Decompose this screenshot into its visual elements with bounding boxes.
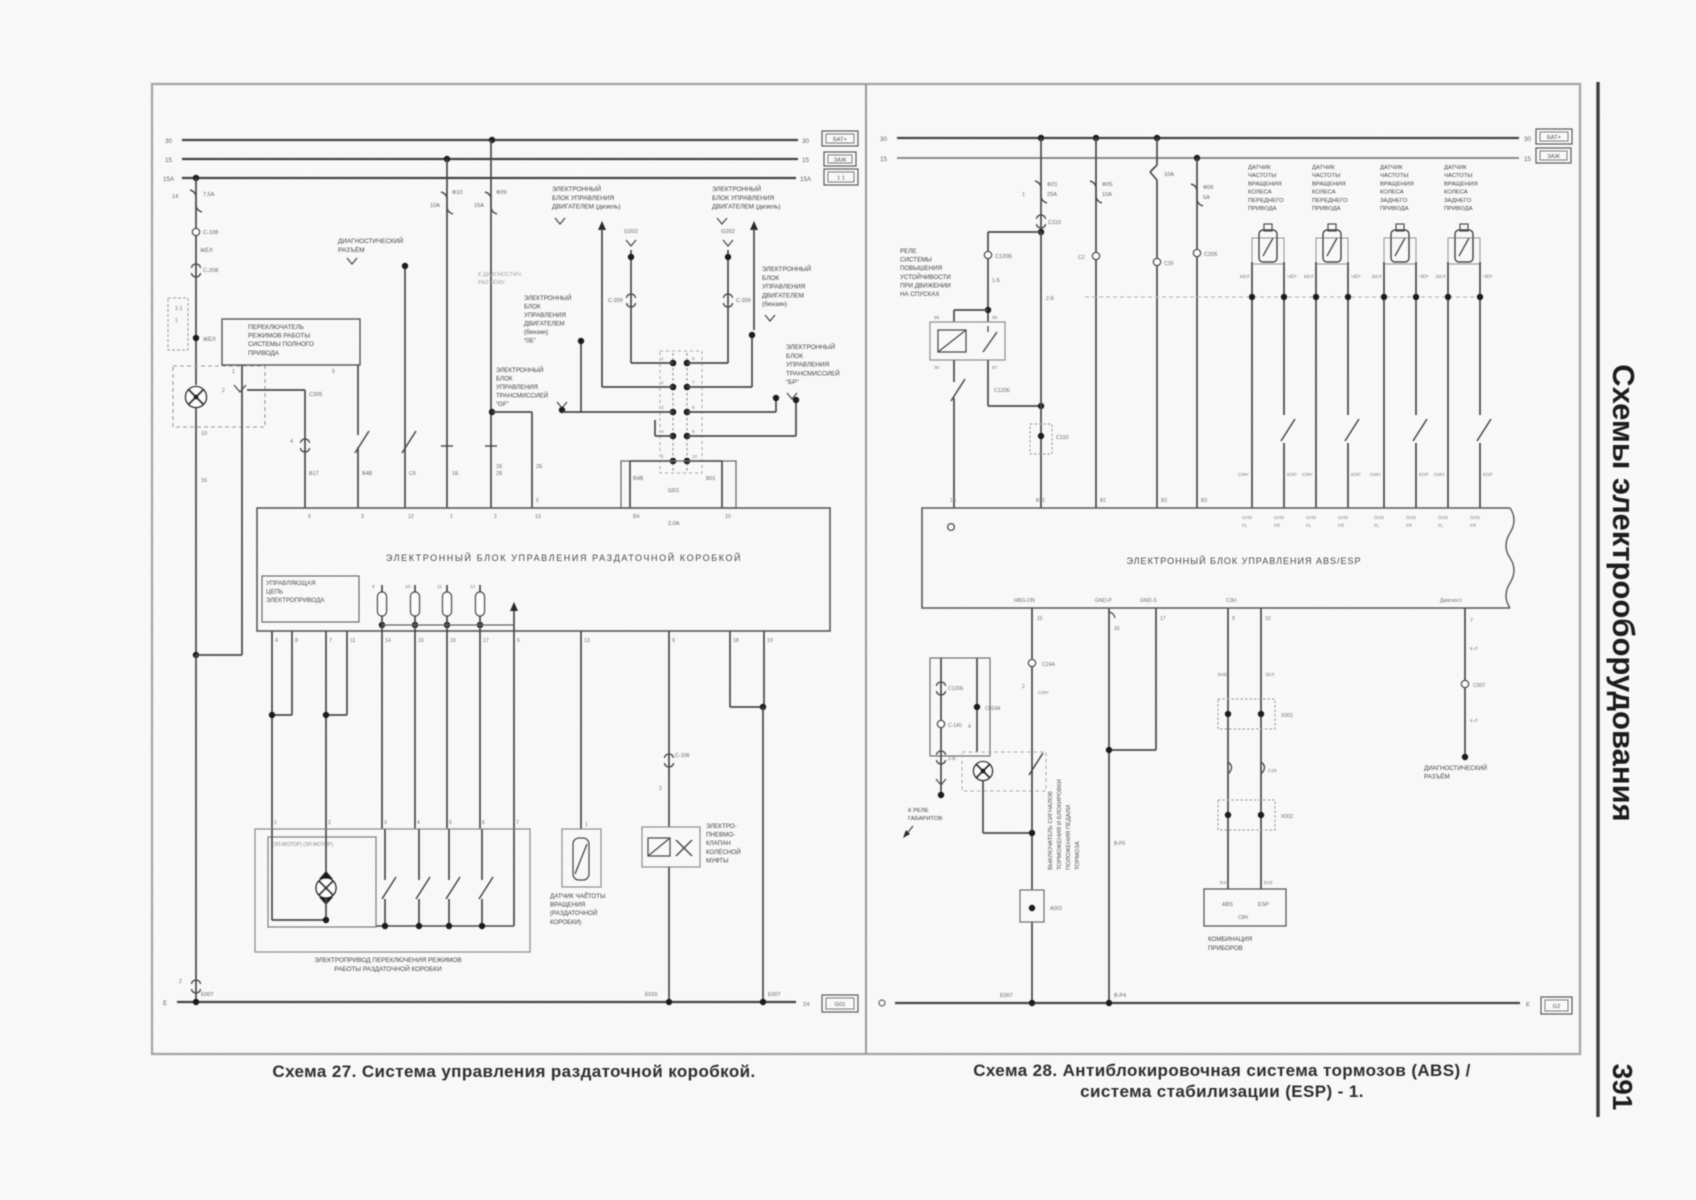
connector X100 dashed housing [660,351,702,473]
svg-text:15: 15 [802,157,809,164]
svg-text:ЕSР: ЕSР [1258,902,1269,908]
svg-text:1Б: 1Б [950,498,957,504]
wire pin19 to ground bus [762,707,764,1002]
svg-text:10: 10 [1265,616,1271,622]
svg-text:В4: В4 [633,514,639,520]
junction lamp/column [1029,830,1035,836]
svg-text:ПРИ ДВИЖЕНИИ: ПРИ ДВИЖЕНИИ [900,282,951,289]
svg-text:3: 3 [661,405,664,410]
svg-text:15А: 15А [163,176,175,183]
svg-text:1Б: 1Б [496,464,503,470]
svg-text:ПРИБОРОВ: ПРИБОРОВ [1208,945,1243,952]
wire output5 down [513,631,515,829]
svg-text:ВЫКЛЮЧАТЕЛЬ СИГНАЛОВ: ВЫКЛЮЧАТЕЛЬ СИГНАЛОВ [1048,791,1054,870]
connector C-108 on lamp branch [192,228,199,235]
svg-text:GHS: GHS [1338,515,1348,520]
svg-text:ЧЁР: ЧЁР [1419,273,1429,280]
svg-text:С-106: С-106 [675,753,690,759]
svg-text:ДАТЧИК: ДАТЧИК [1444,165,1467,171]
svg-text:ПЕРЕКЛЮЧАТЕЛЬ: ПЕРЕКЛЮЧАТЕЛЬ [248,324,304,331]
svg-text:FL: FL [1374,523,1380,528]
svg-text:ЭЛЕКТРОННЫЙ: ЭЛЕКТРОННЫЙ [496,366,543,374]
svg-text:СИН: СИН [1370,472,1381,478]
svg-text:С24А: С24А [1042,662,1056,668]
svg-text:Схема 27. Система управления р: Схема 27. Система управления раздаточной… [272,1062,755,1081]
svg-text:13: 13 [584,638,590,644]
svg-text:6: 6 [308,514,311,520]
svg-text:СИН: СИН [1434,472,1445,478]
dashed enclosure around lamp [173,366,265,427]
connector tick wire447 [441,445,453,447]
connector C-209 left [627,294,636,298]
svg-text:КОЛЕСА: КОЛЕСА [1312,190,1336,196]
svg-text:Ф21: Ф21 [1047,182,1057,188]
svg-text:FR: FR [1338,523,1345,528]
transfer actuator outer box [255,829,530,952]
svg-text:ТОРМОЖЕНИЯ И БЛОКИРОВКИ: ТОРМОЖЕНИЯ И БЛОКИРОВКИ [1057,779,1063,870]
svg-text:ДВИГАТЕЛЕМ (дизель): ДВИГАТЕЛЕМ (дизель) [552,204,621,211]
ground bus right diagram [895,1002,1520,1004]
diag connector dot [402,263,408,269]
svg-text:GHS: GHS [1274,515,1284,520]
wire GND-P down [1108,608,1110,1003]
wire ECU pin9 down [668,631,670,827]
sensor B1 switch [1281,419,1295,441]
wire 1032 to ground [1031,922,1033,1003]
svg-text:ЦЕПЬ: ЦЕПЬ [266,588,283,595]
svg-text:КОЛЕСА: КОЛЕСА [1444,190,1468,196]
svg-text:14: 14 [172,194,178,200]
connector pair on 941 a [937,682,946,686]
svg-text:FL: FL [1306,523,1312,528]
wire HBG-ON down [1031,608,1033,890]
diag end dot [1462,754,1468,760]
svg-text:G202: G202 [721,229,735,235]
connector on wire 305 [301,439,310,443]
wire BR2 riser [775,395,777,412]
right ground junction GND-P [1106,1000,1112,1006]
ground bus end box [822,995,858,1012]
wire to diesel ECU-2 with arrow [750,221,758,230]
junction rail3/lamp-branch [193,175,199,181]
svg-text:К-Л: К-Л [1470,646,1478,652]
wire ECU pin4 down [271,631,273,829]
svg-text:БЕЛ: БЕЛ [1240,274,1250,280]
svg-text:С305: С305 [309,392,322,398]
svg-text:2: 2 [222,388,225,394]
small dashed connector frame [168,298,188,350]
svg-text:30: 30 [802,138,809,145]
svg-text:БЕЛ: БЕЛ [1304,274,1314,280]
svg-text:7: 7 [329,638,332,644]
svg-text:В-Р4: В-Р4 [1114,993,1126,999]
svg-text:25А: 25А [1047,192,1057,198]
svg-text:ПЕРЕДНЕГО: ПЕРЕДНЕГО [1312,198,1348,204]
svg-text:КОР: КОР [1351,472,1361,478]
sensor B3 switch [1413,419,1427,441]
net 15A bus (left diagram top rail 3) [182,177,796,179]
actuator position switch 1 [384,829,386,880]
svg-text:В17: В17 [309,471,319,477]
solenoid cross [676,840,692,856]
svg-text:GHS: GHS [1242,515,1252,520]
connector C205 on 1197 [1193,249,1200,256]
svg-text:КОМБИНАЦИЯ: КОМБИНАЦИЯ [1208,936,1252,943]
wire GND-S jog [1155,608,1157,750]
svg-text:G202: G202 [624,229,638,235]
junction lamp/switch-return [193,652,199,658]
fuse F10 10A [441,192,447,202]
svg-text:85: 85 [992,315,998,321]
svg-text:РАБОТЫ РАЗДАТОЧНОЙ КОРОБКИ: РАБОТЫ РАЗДАТОЧНОЙ КОРОБКИ [334,964,442,973]
svg-text:8: 8 [295,638,298,644]
GF connector arrow [557,402,567,408]
svg-text:КЛАПАН: КЛАПАН [706,840,731,847]
svg-text:6: 6 [692,356,695,361]
arrow end on 941 [936,779,946,785]
svg-text:FR: FR [1406,523,1413,528]
connector circle on 941 [937,720,944,727]
svg-text:5: 5 [332,369,335,375]
svg-text:2: 2 [1022,684,1025,690]
wire lamp branch upper [195,178,197,385]
stoplight lamp dashed box [962,752,1046,791]
wire cluster left [1227,608,1229,889]
X100 row4 wires [655,435,673,437]
sidebar rule [1596,82,1599,1117]
svg-text:БЛОК УПРАВЛЕНИЯ: БЛОК УПРАВЛЕНИЯ [552,195,614,202]
sensor B2 switch [1345,419,1359,441]
right ground left terminal [879,1000,885,1006]
solenoid valve box [642,827,700,867]
svg-text:ВРАЩЕНИЯ: ВРАЩЕНИЯ [1248,181,1282,187]
svg-text:БЕЛ: БЕЛ [1436,274,1446,280]
junction on lamp branch [193,335,199,341]
connector X100 pin pair row 1 [670,360,677,367]
svg-text:УСТОЙЧИВОСТИ: УСТОЙЧИВОСТИ [900,273,951,281]
svg-text:4: 4 [661,429,664,434]
svg-text:ЧЁР: ЧЁР [1351,273,1361,280]
actuator common rail [376,925,514,927]
svg-text:10: 10 [201,431,207,437]
svg-text:ДВИГАТЕЛЕМ (дизель): ДВИГАТЕЛЕМ (дизель) [712,204,781,211]
rail1 end box [1536,129,1572,144]
svg-text:ДИАГНОСТИЧЕСКИЙ: ДИАГНОСТИЧЕСКИЙ [1424,764,1487,772]
connector C120B [984,251,991,258]
svg-text:5: 5 [661,454,664,459]
wire 358 to ecu [357,365,359,435]
svg-text:В01: В01 [706,476,716,482]
svg-text:7,5А: 7,5А [203,192,215,198]
svg-text:КОЛЕСА: КОЛЕСА [1380,190,1404,196]
svg-text:ДВИГАТЕЛЕМ: ДВИГАТЕЛЕМ [762,292,804,299]
svg-text:11: 11 [350,638,355,644]
valve block box [930,658,990,756]
svg-text:РАЗЪЁМУ: РАЗЪЁМУ [478,279,505,286]
svg-text:КОЛЁСНОЙ: КОЛЁСНОЙ [706,848,741,856]
svg-text:ЖЁЛ: ЖЁЛ [203,336,216,343]
wire ECU pin11 jog [346,631,348,715]
svg-text:С-209: С-209 [608,298,623,304]
svg-text:ЗЕЛ: ЗЕЛ [1265,672,1274,678]
svg-text:ЭЛЕКТРОННЫЙ: ЭЛЕКТРОННЫЙ [552,184,601,193]
net box rail3 [824,169,858,185]
svg-text:“БР”: “БР” [786,379,799,386]
svg-text:Схема 28. Антиблокировочная си: Схема 28. Антиблокировочная система торм… [973,1061,1471,1080]
svg-text:7: 7 [1470,618,1473,624]
svg-text:МУФТЫ: МУФТЫ [706,857,729,864]
wire C110 to ECU [1040,232,1042,508]
svg-text:ЗАЖ: ЗАЖ [1547,154,1560,160]
svg-text:В4В: В4В [633,476,644,482]
svg-text:2: 2 [328,820,331,826]
wire switch to ecu vertical [304,390,306,508]
svg-text:С8Н: С8Н [1238,915,1248,921]
svg-text:1: 1 [175,318,178,324]
svg-text:11: 11 [437,584,442,590]
svg-text:ТОРМОЗА: ТОРМОЗА [1075,841,1081,870]
svg-text:24: 24 [803,1002,810,1008]
capsule junction 4 [477,622,483,628]
svg-text:2-Б: 2-Б [1046,296,1055,302]
svg-text:СИН: СИН [1302,472,1313,478]
svg-text:ВРАЩЕНИЯ: ВРАЩЕНИЯ [1312,181,1346,187]
svg-text:3: 3 [361,514,364,520]
sensor B4 right lead [1479,262,1481,415]
svg-text:РАЗЪЁМ: РАЗЪЁМ [1424,774,1450,781]
svg-text:16: 16 [1114,626,1120,632]
sensor B4 left lead [1447,262,1449,508]
svg-text:НВG-ОN: НВG-ОN [1014,598,1035,604]
rail1 junction F21 [1038,135,1044,141]
wire petrol-2 riser [580,341,582,412]
sensor B3 junctions [1381,294,1387,300]
svg-text:GHS: GHS [1406,515,1416,520]
net 30 bus (left diagram top rail 1) [182,139,798,141]
svg-text:ЭЛЕКТРОННЫЙ БЛОК УПРАВЛЕНИЯ АВ: ЭЛЕКТРОННЫЙ БЛОК УПРАВЛЕНИЯ АВS/ЕSР [1126,555,1361,566]
svg-text:(бензин): (бензин) [762,300,787,308]
svg-text:7: 7 [692,380,695,385]
svg-text:В16: В16 [1220,880,1229,886]
indicator lamp 4WD [186,387,207,408]
svg-text:С-208: С-208 [203,268,218,274]
svg-text:КОЛЕСА: КОЛЕСА [1248,190,1272,196]
svg-text:Ш01: Ш01 [668,488,679,494]
wire coil branch [954,309,988,311]
svg-text:ЧЁР: ЧЁР [1287,273,1297,280]
transfer speed sensor outer [562,829,601,887]
svg-text:система стабилизации (ЕSР) - 1: система стабилизации (ЕSР) - 1. [1080,1082,1364,1101]
connector C110 [1037,215,1046,219]
svg-text:GND-Р: GND-Р [1095,598,1112,604]
svg-text:12: 12 [408,514,414,520]
connector X100 dashed pins [672,353,674,471]
ECU internal node circle [948,524,955,531]
svg-text:17: 17 [1160,616,1166,622]
svg-text:15: 15 [1524,156,1531,163]
wire relay contact down [987,360,989,406]
connector C007 [1461,680,1468,687]
svg-text:ПОВЫШЕНИЯ: ПОВЫШЕНИЯ [900,265,942,272]
svg-text:СИН: СИН [1238,472,1249,478]
wire ECU pin19 down [763,631,765,707]
svg-text:Диагност.: Диагност. [1440,598,1463,604]
svg-text:13: 13 [535,514,541,520]
svg-text:16: 16 [201,478,207,484]
sensor B2 left lead [1315,262,1317,508]
connector tick wire491 [485,445,497,447]
svg-text:С-108: С-108 [203,230,218,236]
svg-text:4: 4 [968,724,971,730]
ABS ESP ECU box [922,508,1510,608]
wire diag down [1464,608,1466,757]
fuse F21 25A [1035,181,1041,191]
svg-text:10А: 10А [430,203,440,209]
rail junction 1 [382,923,388,929]
svg-text:ВРАЩЕНИЯ: ВРАЩЕНИЯ [1444,181,1478,187]
rail junction 4 [479,923,485,929]
svg-text:В2: В2 [1161,498,1167,504]
sensor B3 right lead [1415,262,1417,415]
svg-text:ПЕРЕДНЕГО: ПЕРЕДНЕГО [1248,198,1284,204]
svg-text:БЛОК УПРАВЛЕНИЯ: БЛОК УПРАВЛЕНИЯ [712,195,774,202]
svg-text:5: 5 [449,820,452,826]
wire output 4 down [479,631,481,829]
output rail inside ECU [382,624,514,626]
net 15 bus (left diagram top rail 2) [182,158,798,160]
svg-text:15: 15 [418,638,424,644]
svg-text:GHS: GHS [1306,515,1316,520]
sensor B4 junctions [1445,294,1451,300]
junction on F9 wire [489,409,495,415]
svg-text:GHS: GHS [1374,515,1384,520]
svg-text:1 1: 1 1 [837,175,845,181]
svg-text:БЕЛ: БЕЛ [1372,274,1382,280]
solenoid coil [648,838,670,856]
svg-text:ЭЛЕКТРОПРИВОД ПЕРЕКЛЮЧЕНИЯ РЕЖ: ЭЛЕКТРОПРИВОД ПЕРЕКЛЮЧЕНИЯ РЕЖИМОВ [314,957,461,964]
svg-text:9: 9 [672,638,675,644]
svg-text:БАТ+: БАТ+ [1547,135,1562,141]
sensor B1 left lead [1251,262,1253,508]
svg-text:С26: С26 [1164,261,1174,267]
svg-text:РАЗЪЁМ: РАЗЪЁМ [338,246,365,254]
svg-text:С007: С007 [1473,683,1486,689]
transfer speed sensor element [573,838,589,880]
svg-text:С120Б: С120Б [994,388,1010,394]
rail junction 2 [416,923,422,929]
svg-text:(РАЗДАТОЧНОЙ: (РАЗДАТОЧНОЙ [550,909,597,917]
junction rail1/F-491 [489,137,495,143]
svg-text:4: 4 [275,638,278,644]
wheel speed sensor B3 body [1384,238,1416,264]
svg-text:КОР: КОР [1287,472,1297,478]
switch on wire 358 [355,431,369,453]
connector C24A [1028,659,1035,666]
wire petrol ECU riser [751,335,753,387]
X100 row4 left stub [654,420,656,436]
svg-text:15А: 15А [474,203,484,209]
wheel speed sensor B4 body [1448,238,1480,264]
capsule top lead 4 [479,585,481,592]
svg-text:ЧАСТОТЫ: ЧАСТОТЫ [1444,173,1473,179]
wire output 1 down [381,631,383,829]
wire switch-return vertical [241,408,243,655]
connector C-208 on lamp branch [192,264,201,268]
wire fuse F9 branch [490,140,492,508]
actuator inner motor box [268,837,376,927]
wire 358 from box stub [357,364,359,366]
svg-text:ТРАНСМИССИЕЙ: ТРАНСМИССИЕЙ [786,368,840,377]
svg-text:FR: FR [1470,523,1477,528]
svg-text:ДАТЧИК ЧАСТОТЫ: ДАТЧИК ЧАСТОТЫ [550,893,605,900]
wire lamp to lower junction [195,408,197,655]
svg-text:С120Б: С120Б [948,686,964,692]
svg-text:ПНЕВМО-: ПНЕВМО- [706,832,735,839]
svg-text:К ДИАГНОСТИЧ.: К ДИАГНОСТИЧ. [478,272,523,278]
X100 row1 stubs [631,362,673,364]
sensor B3 left lead [1383,262,1385,508]
rail1 junction F05 [1093,135,1099,141]
svg-text:15: 15 [880,156,887,163]
connector bracket box Sh01 [621,461,736,508]
wire valve to ground bus [668,867,670,1002]
wire motor bottom [325,898,327,920]
svg-text:1: 1 [661,356,664,361]
relay K1 box [930,322,1005,360]
svg-text:15А: 15А [800,176,812,183]
svg-text:УПРАВЛЕНИЯ: УПРАВЛЕНИЯ [762,284,806,291]
svg-text:РЕЛЕ: РЕЛЕ [900,248,916,255]
switch on 1032 [1029,753,1043,775]
driver output capsule 3 [443,592,452,616]
svg-text:GHS: GHS [1438,515,1448,520]
svg-text:ПРИВОДА: ПРИВОДА [1248,206,1277,212]
svg-text:АВS: АВS [1222,902,1233,908]
svg-text:2: 2 [659,786,662,792]
X100 bracket drop right [721,461,723,508]
svg-text:6: 6 [482,820,485,826]
svg-text:10: 10 [692,454,698,459]
svg-text:“GF”: “GF” [496,401,509,408]
capsule junction 3 [444,622,450,628]
junction relay branch [1038,229,1044,235]
svg-text:РЕЖИМОВ РАБОТЫ: РЕЖИМОВ РАБОТЫ [248,333,310,340]
connector X100 pin pair row 2 [670,384,677,391]
svg-text:12: 12 [470,584,476,590]
branch wire to ECU pin 2B [492,411,532,413]
svg-text:ПРИВОДА: ПРИВОДА [1444,206,1473,212]
svg-text:ЧЁР: ЧЁР [1483,273,1493,280]
svg-text:ПРИВОДА: ПРИВОДА [1312,206,1341,212]
svg-text:В3: В3 [1201,498,1207,504]
wheel speed sensor B2 body [1316,238,1348,264]
svg-text:Е: Е [1526,1002,1530,1008]
motor M1 [316,878,336,898]
svg-text:10: 10 [405,584,411,590]
page frame [152,84,1580,1054]
svg-text:ВРАЩЕНИЯ: ВРАЩЕНИЯ [1380,181,1414,187]
svg-text:2: 2 [179,979,182,985]
svg-text:15: 15 [165,157,172,164]
svg-text:СИН: СИН [1038,690,1049,696]
wire relay drop [987,232,989,322]
svg-text:1: 1 [232,369,235,375]
svg-text:FR: FR [1274,523,1281,528]
svg-text:FL: FL [1242,523,1248,528]
sensor B2 right lead [1347,262,1349,415]
svg-text:15: 15 [1037,616,1043,622]
svg-text:5: 5 [517,638,520,644]
